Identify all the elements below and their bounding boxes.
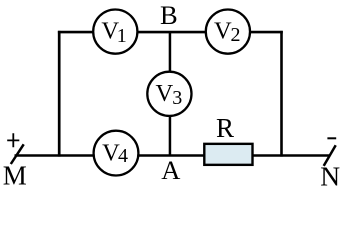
terminal N slash	[324, 145, 336, 166]
voltmeter V2	[206, 10, 250, 54]
wire right vertical	[280, 31, 283, 157]
svg-text:M: M	[3, 160, 27, 187]
svg-text:3: 3	[172, 87, 182, 109]
wire bottom horizontal	[15, 154, 330, 157]
svg-text:B: B	[160, 0, 178, 30]
wire node B down to V3	[169, 32, 172, 75]
svg-text:1: 1	[117, 25, 127, 47]
voltmeter V3	[147, 72, 191, 116]
wire V3 down to node A	[169, 114, 172, 156]
wire top horizontal	[58, 31, 283, 34]
resistor R body	[204, 144, 252, 165]
plus sign at M	[7, 133, 19, 147]
svg-text:N: N	[320, 161, 340, 188]
svg-text:A: A	[161, 155, 180, 185]
svg-text:4: 4	[118, 145, 128, 167]
voltmeter V4	[94, 131, 139, 176]
terminal M slash	[11, 144, 24, 164]
svg-text:2: 2	[231, 24, 241, 46]
svg-text:V: V	[156, 80, 174, 107]
voltmeter V1	[93, 10, 137, 54]
svg-text:R: R	[216, 113, 234, 143]
svg-text:V: V	[214, 18, 232, 45]
wire left vertical	[58, 31, 61, 157]
minus sign at N	[327, 137, 336, 139]
